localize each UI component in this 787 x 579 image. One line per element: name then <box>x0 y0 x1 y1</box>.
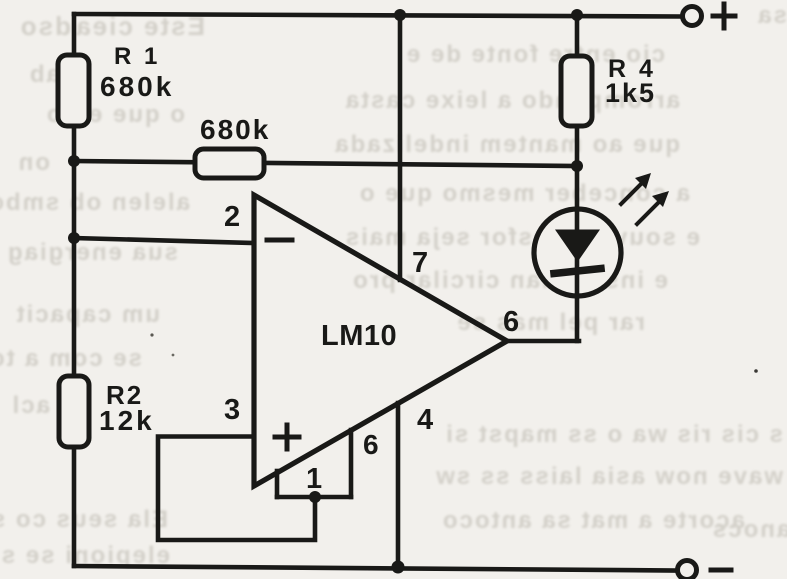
- sign <box>711 568 731 573</box>
wire: pin 1 stub from triangle <box>275 471 280 497</box>
svg-text:12k: 12k <box>99 405 155 436</box>
svg-text:ab: ab <box>28 61 60 88</box>
node junction pin2 row <box>68 232 80 244</box>
LED D1 anode triangle <box>555 230 600 263</box>
svg-text:dso: dso <box>19 11 71 41</box>
resistor R2 <box>59 376 89 447</box>
svg-text:680k: 680k <box>200 114 270 145</box>
svg-text:s cis ris wa o ss mapst si: s cis ris wa o ss mapst si <box>444 421 783 448</box>
wire: pin 5 stub from triangle <box>349 430 354 497</box>
wire: R4 / LED column <box>575 16 580 341</box>
op-amp minus input symbol <box>267 238 292 243</box>
label 680k feedback value <box>200 114 270 145</box>
scan speck <box>754 369 758 373</box>
svg-text:sua energiag: sua energiag <box>6 239 178 266</box>
svg-text:2: 2 <box>224 201 240 233</box>
wire: bottom -V rail <box>74 566 676 571</box>
wire: feedback row from node A to node B <box>74 161 577 166</box>
svg-text:LM10: LM10 <box>321 320 397 352</box>
wire: output pin 6 to LED cathode <box>506 339 579 344</box>
svg-text:R 1: R 1 <box>114 43 160 70</box>
svg-text:1k5: 1k5 <box>605 78 656 108</box>
resistor R4 <box>561 56 592 126</box>
pin 4 <box>417 404 433 436</box>
svg-text:680k: 680k <box>100 71 174 102</box>
svg-text:que ao mantem indelizada: que ao mantem indelizada <box>333 131 680 158</box>
scan speck <box>172 354 175 357</box>
LED light arrow 1 <box>621 173 651 204</box>
op-amp plus input symbol <box>275 425 299 449</box>
svg-text:um capacit: um capacit <box>15 301 160 328</box>
wire: inverting input to pin 2 <box>74 238 254 243</box>
label R2 <box>106 380 143 410</box>
pin 2 <box>224 201 240 233</box>
node junction pin4 / bottom rail <box>392 561 405 574</box>
label R1 <box>114 43 160 70</box>
wire: stub tie bar <box>277 495 351 500</box>
svg-text:ganocs: ganocs <box>711 516 787 543</box>
svg-text:3: 3 <box>224 394 240 426</box>
+ sign <box>713 4 735 28</box>
pin 3 <box>224 394 240 426</box>
terminal - (negative supply) <box>678 561 697 579</box>
label R4 value 1k5 <box>605 78 656 108</box>
svg-text:sa: sa <box>756 2 787 29</box>
node junction top rail / pin7 <box>394 9 406 21</box>
pin 5/6 tie <box>363 429 379 460</box>
svg-text:acorte a mat sa antoco: acorte a mat sa antoco <box>441 507 745 534</box>
svg-text:1: 1 <box>306 463 322 495</box>
pin 6 output <box>503 306 519 338</box>
svg-text:wave now asia laiss ss sw: wave now asia laiss ss sw <box>434 463 784 490</box>
label R4 <box>608 55 656 83</box>
svg-text:on: on <box>17 149 50 176</box>
svg-text:alelen ob smbo: alelen ob smbo <box>0 189 190 216</box>
svg-text:Ela seus co s: Ela seus co s <box>0 506 168 533</box>
svg-text:7: 7 <box>412 247 428 279</box>
label LM10 <box>321 320 397 352</box>
node A junction (R1/R2/680k) <box>68 155 80 167</box>
node B junction R4/LED/feedback <box>571 160 583 172</box>
op-amp U1 LM10 triangle <box>254 195 507 486</box>
pin 1 <box>306 463 322 495</box>
svg-text:4: 4 <box>417 404 433 436</box>
LED D1 wire through body <box>575 209 580 296</box>
resistor 680k feedback <box>195 149 264 178</box>
wire: top +V rail <box>74 14 681 17</box>
LED D1 cathode bar <box>554 269 601 274</box>
LED D1 circle <box>534 209 621 296</box>
label R2 value 12k <box>99 405 155 436</box>
label R1 value 680k <box>100 71 174 102</box>
svg-text:rar pel mas se: rar pel mas se <box>456 309 645 336</box>
LED light arrow 2 <box>637 191 669 224</box>
node junction pin1/5 tie <box>309 491 321 503</box>
svg-text:e souve o essfor seja mais: e souve o essfor seja mais <box>344 224 700 251</box>
wire: pin 7 supply from top rail <box>398 16 403 280</box>
terminal + (positive supply) <box>683 7 702 26</box>
svg-text:se com a tchis: se com a tchis <box>0 345 142 372</box>
wire: pin 3 loop <box>158 437 315 541</box>
resistor R1 <box>58 55 89 126</box>
wire: left rail (R1/R2 column) <box>72 14 77 566</box>
scan speck <box>150 333 153 336</box>
svg-text:6: 6 <box>503 306 519 338</box>
svg-text:acl: acl <box>11 392 50 419</box>
wire: pin 4 supply to bottom rail <box>396 403 401 569</box>
node junction top rail / R4 <box>571 9 583 21</box>
pin 7 <box>412 247 428 279</box>
svg-text:6: 6 <box>363 429 379 460</box>
